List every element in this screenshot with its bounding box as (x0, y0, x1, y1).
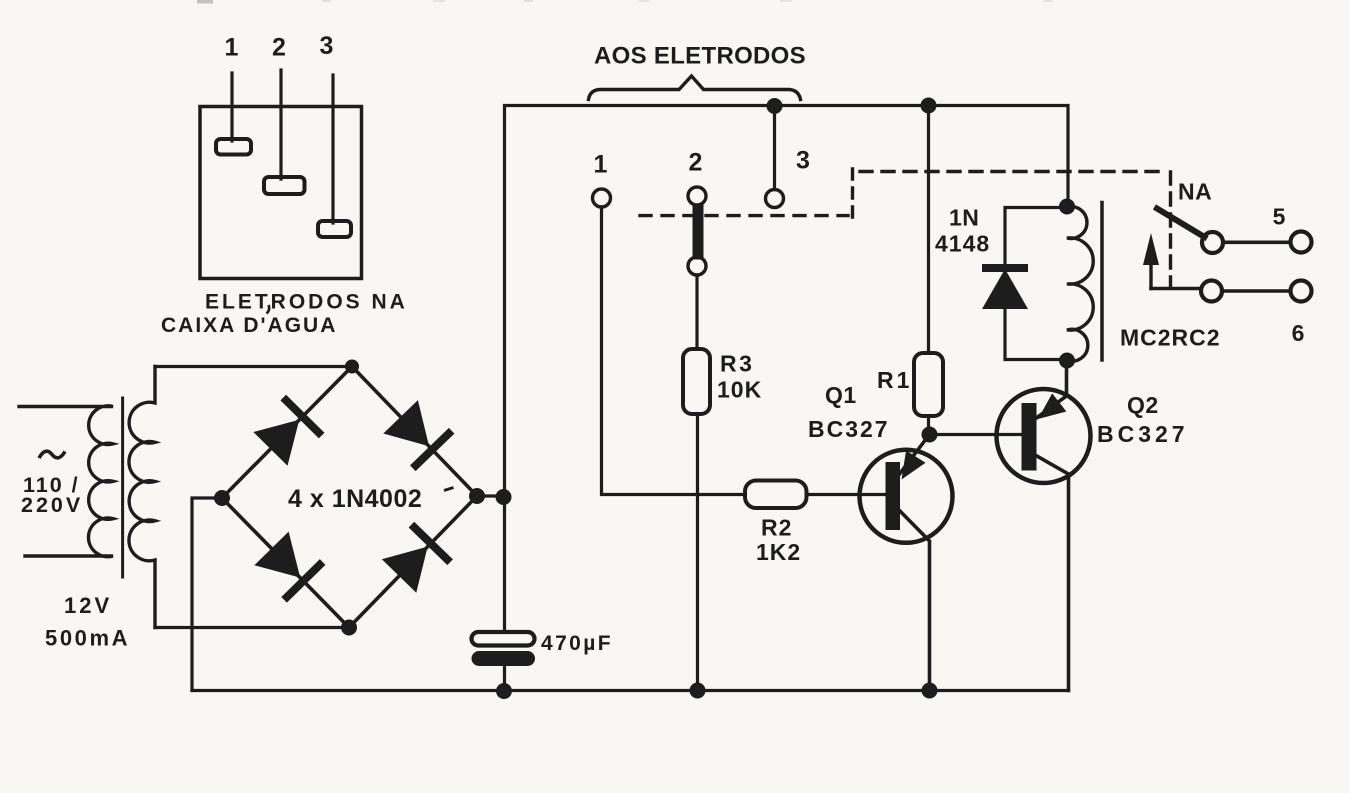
main left rail and top rail (505, 106, 1069, 633)
svg-text:4148: 4148 (935, 231, 990, 257)
wire terminal 2 to R3 (695, 275, 698, 349)
junction dot rail bridge (496, 489, 512, 505)
svg-text:NA: NA (1178, 179, 1212, 205)
junction dot Q1 rail (922, 683, 938, 699)
svg-text:1: 1 (594, 151, 608, 179)
junction dot bridge left (214, 490, 230, 506)
wire Q1 collector to bottom rail (898, 509, 930, 691)
transformer T1 primary winding (19, 406, 113, 557)
terminal 2 circle (688, 187, 706, 205)
electrode lead 2 (279, 70, 282, 179)
wire bridge left node down to bottom rail (192, 498, 222, 691)
junction dot relay bottom (1059, 353, 1075, 369)
relay coil K1 (1067, 207, 1093, 362)
relay core bar (1100, 203, 1104, 361)
page-edge mark (1043, 0, 1053, 2)
bottom rail (192, 689, 1069, 692)
transistor Q1 circle (860, 450, 953, 543)
transistor Q1 base bar (886, 462, 901, 530)
svg-text:2: 2 (689, 149, 703, 177)
svg-text:4 x 1N4002: 4 x 1N4002 (288, 485, 422, 513)
capacitor C1 top plate (472, 632, 535, 646)
wire Q2 collector to bottom rail (1035, 455, 1069, 691)
sensor gap bar terminal 2 (693, 209, 704, 254)
wire R1 bottom to node (927, 416, 930, 435)
electrode plate 3 (318, 221, 351, 237)
svg-text:Q2: Q2 (1127, 392, 1159, 418)
svg-text:1K2: 1K2 (756, 539, 801, 565)
dashed linkage horizontal 1 (640, 214, 848, 217)
junction dot relay top (1059, 199, 1075, 215)
resistor R2 body (745, 481, 807, 509)
svg-text:470µF: 470µF (541, 632, 613, 655)
electrode box (200, 107, 362, 279)
junction dot top rail R1 (921, 98, 937, 114)
wire secondary top to bridge top node (155, 365, 352, 368)
contact 6 circle (1291, 281, 1312, 302)
stray mark near 1N4002 (444, 488, 454, 491)
svg-text:BC327: BC327 (1097, 421, 1189, 447)
svg-text:AOS ELETRODOS: AOS ELETRODOS (594, 43, 806, 70)
AC tilde symbol (39, 451, 65, 458)
electrode lead 3 (331, 75, 334, 223)
wire R1 top (927, 106, 930, 354)
wire terminal 1 drop and base run (602, 207, 746, 495)
wire node to Q2 base (930, 433, 1022, 436)
resistor R1 body (914, 353, 943, 416)
svg-text:1: 1 (225, 34, 239, 62)
brace AOS ELETRODOS (589, 76, 801, 100)
terminal 3 circle (766, 190, 784, 208)
svg-text:R1: R1 (877, 367, 912, 393)
terminal 1 circle (593, 189, 611, 207)
dashed linkage horizontal 2 (860, 170, 1162, 173)
svg-text:Q1: Q1 (825, 382, 857, 408)
junction dot capacitor rail (496, 683, 512, 699)
junction dot node R1 Q1 Q2 (922, 427, 938, 443)
svg-text:3: 3 (320, 32, 334, 60)
page-edge mark (433, 0, 445, 2)
comma artifact under ELETRODOS (267, 305, 270, 314)
diode D3 bridge bottom-left (252, 530, 325, 603)
page-edge mark (524, 0, 533, 2)
transformer T1 secondary winding (129, 367, 155, 628)
svg-text:6: 6 (1292, 320, 1305, 346)
diode D2 bridge top-right (381, 398, 454, 471)
wire R2 to Q1 base (807, 493, 886, 496)
svg-text:R3: R3 (720, 351, 754, 377)
svg-text:BC327: BC327 (808, 416, 890, 442)
wire capacitor bottom lead (503, 666, 506, 690)
contact 5 circle (1291, 232, 1312, 253)
dashed linkage vertical at switch (1169, 172, 1172, 287)
svg-text:500mA: 500mA (45, 626, 130, 651)
lower contact wire mid (1223, 289, 1290, 293)
svg-text:R2: R2 (761, 515, 792, 541)
electrode lead 1 (230, 73, 233, 141)
transistor Q2 base bar (1022, 403, 1037, 471)
electrode plate 1 (216, 139, 251, 155)
junction dot bridge right (469, 488, 485, 504)
bridge diamond wires (222, 367, 477, 628)
dashed linkage riser (851, 168, 854, 217)
svg-text:ELETRODOS NA: ELETRODOS NA (205, 291, 408, 314)
page-edge mark (780, 0, 792, 2)
svg-text:1N: 1N (949, 205, 979, 231)
junction dot top rail terminal 3 (767, 98, 783, 114)
wire secondary bottom to bridge bottom node (155, 626, 349, 629)
junction dot R3 rail (690, 683, 706, 699)
resistor R3 body (683, 349, 710, 414)
svg-text:12V: 12V (64, 593, 112, 618)
svg-text:10K: 10K (717, 377, 762, 403)
actuator arrow shaft (1149, 262, 1152, 289)
svg-text:5: 5 (1273, 204, 1286, 230)
switch pivot circle (1202, 232, 1223, 253)
page-edge mark (322, 0, 331, 2)
actuator arrow head (1143, 233, 1159, 265)
svg-text:2: 2 (272, 34, 286, 62)
diode D5 1N4148 triangle (982, 269, 1028, 309)
svg-text:220V: 220V (21, 493, 83, 517)
lower contact wire left (1151, 287, 1200, 291)
junction dot bridge bottom (341, 620, 357, 636)
transformer core (121, 398, 124, 577)
diode D4 bridge bottom-right (380, 522, 453, 595)
transistor Q2 circle (997, 389, 1091, 483)
transistor Q1 emitter arrow (892, 451, 926, 486)
transistor Q2 emitter arrow (1031, 393, 1066, 428)
terminal 2 lower circle (688, 257, 706, 275)
diode 1N4148 branch wires (1005, 208, 1067, 360)
svg-text:MC2RC2: MC2RC2 (1120, 325, 1221, 351)
svg-text:3: 3 (796, 147, 810, 175)
capacitor C1 bottom plate (472, 651, 536, 666)
switch lever (1157, 209, 1205, 238)
page-edge mark (197, 0, 213, 4)
diode D5 1N4148 cathode bar (982, 264, 1028, 272)
page-edge mark (639, 0, 649, 2)
wire Q2 emitter (1035, 361, 1067, 420)
switch contact 5 wire (1224, 241, 1290, 245)
wire R3 to bottom rail (696, 414, 699, 691)
diode D1 bridge top-left (251, 395, 324, 468)
junction dot bridge top (345, 360, 359, 374)
electrode plate 2 (264, 177, 305, 194)
svg-text:CAIXA D'AGUA: CAIXA D'AGUA (161, 314, 337, 337)
wire terminal 3 drop (773, 106, 776, 190)
wire Q1 emitter (898, 435, 930, 477)
wire bridge right node to main rail (477, 494, 505, 497)
lower contact circle left (1201, 281, 1222, 302)
